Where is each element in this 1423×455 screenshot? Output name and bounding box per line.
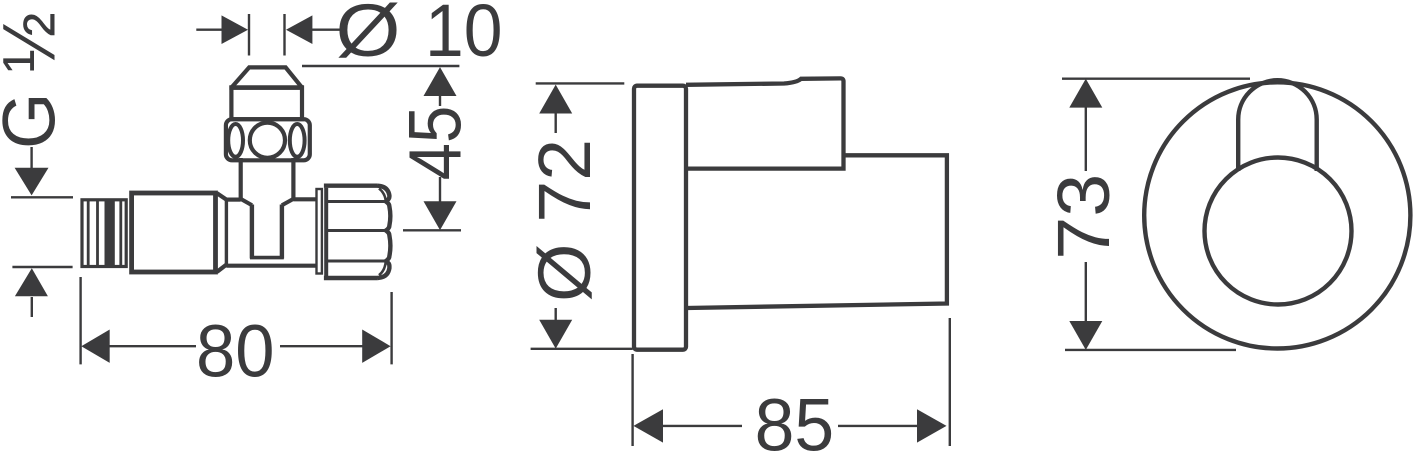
cylinder top edge left segment: [226, 198, 240, 202]
dim 80 extension line right: [390, 292, 392, 364]
dim G1/2 extension line bottom: [12, 266, 72, 268]
knob left edge: [324, 188, 328, 276]
svg-text:45: 45: [394, 106, 477, 181]
lower large block: [687, 155, 947, 308]
dim O72 bottom extension line: [531, 348, 633, 350]
svg-text:Ø 72: Ø 72: [523, 139, 606, 302]
thread thick band: [105, 200, 115, 265]
handle band rounded rect: [226, 119, 310, 160]
thread stripe 2: [96, 200, 99, 265]
dim O72 arrow down: [539, 320, 572, 349]
dim G1/2 extension line top: [11, 196, 73, 198]
inner stem bottom edge: [250, 256, 284, 260]
neck left edge: [239, 158, 243, 201]
cap trapezoid: [231, 67, 302, 87]
dim 85 line left segment: [661, 425, 742, 427]
cone taper top edge: [217, 193, 227, 200]
dim O10 arrow left: [286, 15, 312, 44]
svg-text:85: 85: [755, 384, 835, 455]
inner stem left edge: [250, 205, 254, 259]
dim 45 arrow down: [424, 201, 457, 230]
cap bottom edge: [229, 85, 304, 90]
dim 80 extension line left: [79, 277, 81, 364]
neck left chamfer: [241, 199, 252, 205]
dim G1/2 arrow down: [15, 168, 49, 196]
dim 80 arrow right: [362, 330, 390, 363]
dim 85 line right segment: [838, 425, 919, 427]
dim 45 stem top: [439, 95, 441, 106]
dim 85 arrow left: [634, 409, 664, 442]
dim O72 arrow up: [539, 85, 572, 114]
svg-text:10: 10: [425, 0, 503, 72]
valve body top block: [686, 78, 844, 168]
cylinder top edge right segment: [293, 197, 315, 201]
dim O10 extension line right: [283, 14, 285, 56]
thread stripe 3: [119, 200, 122, 265]
handle left ellipse: [228, 124, 243, 157]
cylinder bottom edge: [226, 264, 315, 268]
knurl groove line 1: [327, 200, 386, 203]
escutcheon big circle: [1144, 82, 1410, 348]
knurl groove line 3: [327, 260, 386, 263]
knob right edge with knurl notches: [378, 186, 391, 278]
dim 80 line right segment: [280, 345, 363, 347]
dim 73 arrow up: [1069, 79, 1102, 108]
middle view dimensions: [531, 83, 950, 446]
handle right ellipse: [290, 124, 305, 157]
knob flange: [317, 189, 322, 274]
svg-text:G ½: G ½: [0, 12, 71, 149]
knurl groove line 2: [327, 229, 386, 232]
knurl corner arc bottom: [379, 262, 386, 276]
cone taper bottom edge: [217, 264, 227, 272]
neck right chamfer: [282, 199, 294, 205]
cone end edge: [225, 200, 228, 264]
right view dimensions: [1062, 79, 1250, 350]
dim O72 stem top: [555, 112, 557, 133]
thread block outline: [82, 200, 126, 267]
handle center circle: [250, 123, 285, 158]
thread stripe 1: [87, 200, 90, 265]
dim 80 arrow left: [81, 330, 109, 363]
dim O10 arrow right: [222, 15, 249, 44]
dim G1/2 arrow up: [15, 268, 48, 296]
dim G1/2 stem bottom: [31, 297, 33, 317]
dim O10 line right: [311, 29, 340, 31]
dim 73 arrow down: [1069, 321, 1102, 350]
dim O72 stem bottom: [555, 308, 557, 321]
dim O72 top extension line: [536, 82, 625, 84]
bonnet ring rect: [231, 88, 302, 120]
dim 80 line left segment: [108, 345, 196, 347]
dim 85 extension line left: [631, 354, 633, 446]
knob bottom edge: [324, 276, 378, 280]
dim 45 arrow up: [424, 67, 457, 96]
dim 73 stem top: [1085, 107, 1087, 171]
dim 45 bottom extension line: [403, 229, 461, 231]
knob top edge: [324, 183, 378, 187]
knurl corner arc top: [379, 189, 386, 202]
dim O10 line left: [196, 29, 222, 31]
knob inner circle: [1205, 158, 1352, 305]
handle stadium shape: [1238, 80, 1317, 171]
svg-text:80: 80: [196, 310, 275, 393]
inner stem right edge: [280, 205, 284, 259]
neck right edge: [291, 158, 295, 201]
dim 73 stem bottom: [1085, 262, 1087, 322]
dim G1/2 stem top: [30, 147, 32, 168]
wall plate (escutcheon side view): [634, 86, 686, 350]
dim O10 extension line left: [248, 14, 250, 56]
svg-text:Ø: Ø: [335, 0, 400, 72]
dim 45 stem bottom: [439, 177, 441, 202]
svg-text:73: 73: [1042, 174, 1125, 260]
dim 45 top extension line: [302, 65, 459, 67]
dim 73 top extension line: [1062, 77, 1250, 79]
dim 85 arrow right: [917, 409, 947, 442]
main body block: [132, 193, 216, 272]
dim 73 bottom extension line: [1065, 349, 1236, 351]
dim 85 extension line right: [949, 318, 951, 446]
